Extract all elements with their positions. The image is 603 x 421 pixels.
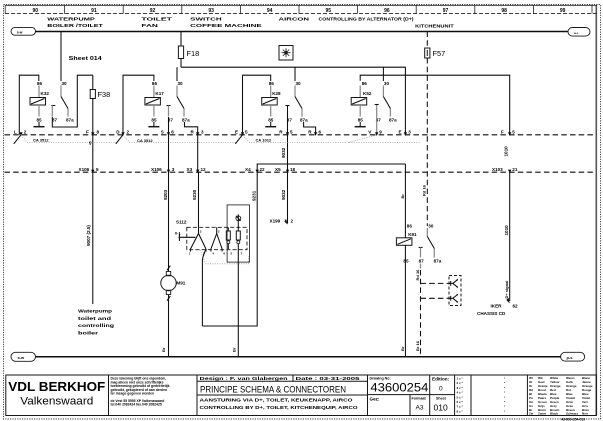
svg-text:Drawing No:: Drawing No: (370, 377, 391, 381)
svg-text:92: 92 (150, 8, 156, 14)
svg-text:controlling: controlling (78, 323, 114, 328)
svg-text:KITCHENUNIT: KITCHENUNIT (415, 23, 454, 28)
wire 1010 D+ signal to chassis (509, 172, 511, 301)
svg-text:0: 0 (439, 386, 443, 393)
svg-text:85: 85 (151, 117, 157, 122)
svg-text:s-w: s-w (17, 31, 23, 35)
svg-text:85: 85 (268, 117, 274, 122)
svg-text:A3: A3 (416, 405, 424, 412)
svg-text:Schwarz: Schwarz (566, 412, 579, 416)
svg-text:toilet and: toilet and (78, 316, 111, 321)
ground bus bottom (36, 356, 561, 358)
wire coil riser D-2 to K17 pin86 (123, 75, 154, 135)
svg-text:85: 85 (37, 117, 43, 122)
svg-text:9203: 9203 (163, 189, 168, 200)
svg-text:22: 22 (260, 167, 266, 172)
svg-text:94: 94 (267, 8, 273, 14)
wire V-9 exit to housing (348, 135, 377, 143)
svg-text:Br: Br (232, 347, 237, 352)
relay K32 coil (30, 81, 49, 122)
svg-text:3 c *: 3 c * (457, 386, 464, 390)
svg-text:Sheet 014: Sheet 014 (69, 56, 102, 62)
svg-text:a-s: a-s (574, 31, 579, 35)
housing dotted outline (21, 135, 420, 143)
svg-text:s-w: s-w (18, 355, 26, 360)
ground K28 (265, 122, 276, 127)
dotted switch underside (200, 250, 249, 264)
svg-text:BOILER /TOILET: BOILER /TOILET (47, 23, 103, 28)
svg-text:9032: 9032 (281, 147, 286, 158)
svg-text:AIRCON: AIRCON (279, 17, 311, 22)
line B pin labels (79, 167, 518, 172)
svg-text:6 c *: 6 c * (457, 400, 464, 404)
svg-text:CONTROLLING BY D+, TOILET, KIT: CONTROLLING BY D+, TOILET, KITCHENEQUIP,… (200, 405, 359, 410)
svg-text:Valkenswaard: Valkenswaard (20, 396, 93, 408)
svg-text:5: 5 (245, 130, 248, 135)
svg-text:p-s: p-s (567, 355, 574, 360)
svg-text:F18: F18 (187, 49, 200, 58)
svg-text:Br 16: Br 16 (415, 340, 420, 351)
svg-text:K28: K28 (272, 91, 281, 96)
svg-text:87a: 87a (434, 258, 442, 263)
svg-text:Design : F. van Glabergen: Design : F. van Glabergen (200, 376, 288, 381)
node s-w supply reference left oval (11, 27, 36, 35)
svg-text:87a: 87a (66, 117, 74, 122)
svg-text:E: E (235, 130, 238, 135)
relay K91 contact (419, 224, 442, 264)
svg-text:93: 93 (208, 8, 214, 14)
svg-text:D+ signal: D+ signal (504, 281, 509, 299)
svg-text:COFFEE MACHINE: COFFEE MACHINE (190, 23, 262, 28)
svg-text:1010: 1010 (504, 146, 509, 157)
svg-text:CA 3512: CA 3512 (137, 138, 153, 143)
svg-text:6: 6 (319, 130, 322, 135)
relay K32 contact (51, 81, 74, 122)
svg-text:010: 010 (434, 403, 448, 413)
svg-text:CONTROLLING BY ALTERNATOR (D+): CONTROLLING BY ALTERNATOR (D+) (319, 17, 415, 22)
relay K28 contact (286, 81, 309, 122)
svg-text:95: 95 (326, 8, 332, 14)
wire X106-3 down to motor (168, 172, 170, 271)
svg-text:CHASSIS CD: CHASSIS CD (477, 311, 506, 316)
svg-text:1010: 1010 (504, 225, 509, 236)
wire K17 87 down to S-6 (168, 117, 170, 135)
svg-text:FAN: FAN (141, 23, 159, 28)
svg-text:30: 30 (384, 81, 390, 86)
svg-text:Date : 03-31-2005: Date : 03-31-2005 (296, 376, 361, 381)
switch S112 (175, 220, 247, 250)
svg-text:Sheet: Sheet (436, 397, 447, 401)
svg-text:Noir: Noir (582, 412, 589, 416)
svg-text:4 c *: 4 c * (457, 391, 464, 395)
svg-text:CA 1012: CA 1012 (256, 137, 272, 142)
line A pin arrows (19, 132, 511, 136)
svg-text:2: 2 (127, 130, 130, 135)
wire K91 87 output (420, 264, 422, 269)
svg-text:87: 87 (52, 117, 58, 122)
wire K28 87 down through R-5 X5-18 to X199 (287, 106, 289, 224)
svg-text:boiler: boiler (78, 331, 98, 336)
svg-text:5: 5 (512, 130, 515, 135)
lamp L1 (226, 227, 230, 249)
switch S112 contact 2 (211, 227, 222, 251)
svg-text:Waterpump: Waterpump (78, 309, 112, 314)
svg-text:86: 86 (407, 224, 413, 229)
relay K28 coil (262, 81, 281, 122)
svg-text:3: 3 (172, 167, 175, 172)
svg-text:9007 (2.5): 9007 (2.5) (86, 225, 91, 246)
ground K52 (355, 122, 366, 127)
svg-text:M91: M91 (176, 280, 185, 285)
line B pin arrows (91, 170, 511, 174)
wire F57 dashed down to K91 pin30 (426, 58, 428, 226)
svg-text:86: 86 (37, 81, 43, 86)
svg-text:Edition:: Edition: (432, 376, 450, 381)
wire dashed to chassis connector (421, 270, 450, 357)
svg-text:L: L (14, 130, 17, 135)
svg-text:AANSTURING VIA D+, TOILET, KEU: AANSTURING VIA D+, TOILET, KEUKENAPP, AI… (200, 398, 354, 403)
svg-text:Rd 16: Rd 16 (415, 269, 420, 281)
relay K17 coil (145, 81, 164, 122)
wire motor to ground bus (168, 295, 170, 357)
svg-text:91: 91 (91, 8, 97, 14)
svg-text:Black: Black (550, 412, 558, 416)
fuse F38 (90, 75, 110, 99)
switch S112 pin numbers (189, 230, 243, 256)
svg-text:5: 5 (290, 130, 293, 135)
svg-text:F57: F57 (433, 49, 446, 58)
text waterpump note (78, 309, 114, 336)
svg-text:1 c *: 1 c * (457, 377, 464, 381)
svg-text:2: 2 (24, 130, 27, 135)
svg-text:IKER: IKER (491, 304, 503, 309)
lamp L2 with phi terminal (236, 214, 241, 243)
wire K32 87 to F38 loop (52, 75, 93, 127)
relay K52 contact (375, 81, 397, 122)
wire R-3 to X3-12 segment (197, 135, 199, 172)
svg-text:30: 30 (428, 224, 434, 229)
svg-text:X103: X103 (492, 167, 503, 172)
wire exit slashes at line A (14, 135, 243, 144)
svg-text:87a: 87a (300, 117, 308, 122)
svg-text:X3: X3 (187, 167, 193, 172)
svg-text:97: 97 (443, 8, 449, 14)
svg-text:K52: K52 (363, 91, 372, 96)
svg-text:86: 86 (269, 81, 275, 86)
svg-text:ter inzage gegeven worden: ter inzage gegeven worden (111, 392, 155, 396)
wire X4-22 feed to K91 top link (257, 164, 405, 172)
svg-text:SWITCH: SWITCH (190, 17, 223, 22)
wire K17 87a to R-3 (185, 122, 198, 135)
svg-text:3: 3 (408, 130, 411, 135)
svg-text:Rd 16: Rd 16 (422, 184, 427, 196)
svg-text:Formaat: Formaat (412, 397, 427, 401)
wire drop line1 to K28 pin30 (294, 67, 296, 81)
svg-text:K32: K32 (41, 91, 50, 96)
wire drop line1 to K52 pin30 (382, 67, 384, 81)
node a-s reference right oval (568, 28, 590, 37)
svg-text:Zw: Zw (529, 412, 534, 416)
logo VDL BERKHOF (8, 379, 105, 408)
svg-text:9231: 9231 (252, 190, 257, 201)
svg-text:7 c *: 7 c * (457, 405, 464, 409)
svg-text:X106: X106 (151, 167, 162, 172)
svg-text:30: 30 (178, 81, 184, 86)
svg-text:Br: Br (400, 346, 405, 351)
svg-text:87a: 87a (389, 117, 397, 122)
svg-text:Br: Br (400, 194, 405, 199)
svg-text:TOILET: TOILET (141, 17, 172, 22)
svg-text:85: 85 (358, 117, 364, 122)
svg-text:Br: Br (161, 347, 166, 352)
svg-text:98: 98 (501, 8, 507, 14)
title block frame (6, 375, 597, 416)
svg-text:F38: F38 (98, 90, 111, 99)
wire S112 output U loop (202, 172, 257, 326)
svg-text:K91: K91 (408, 232, 417, 237)
function header labels (47, 17, 454, 29)
svg-text:30: 30 (62, 81, 68, 86)
svg-text:12: 12 (201, 167, 207, 172)
svg-text:96: 96 (384, 8, 390, 14)
svg-text:43600254: 43600254 (370, 383, 429, 395)
wire +supply bus (36, 31, 569, 33)
svg-text:PRINCIPE SCHEMA & CONNECTOREN: PRINCIPE SCHEMA & CONNECTOREN (200, 384, 346, 394)
svg-text:9230: 9230 (192, 189, 197, 200)
svg-text:CA 3512: CA 3512 (33, 137, 49, 142)
wire coil riser E-5 to K28 pin86 (243, 75, 271, 135)
svg-text:45: 45 (89, 141, 93, 145)
ruler column ticks 90-99 (65, 5, 592, 13)
svg-text:21: 21 (512, 167, 518, 172)
wire K28 87a to R-6 (304, 122, 316, 135)
svg-text:9032: 9032 (281, 189, 286, 200)
connector line B dashed (5, 171, 597, 173)
svg-text:0-1: 0-1 (175, 231, 182, 236)
ground K17 (148, 122, 159, 127)
aircon snowflake icon (279, 46, 293, 61)
svg-text:S112: S112 (176, 220, 187, 225)
svg-text:30: 30 (296, 81, 302, 86)
wire line2 K52 pin86 to D+ feed (360, 75, 510, 135)
svg-text:Zwart: Zwart (538, 412, 546, 416)
svg-text:87a: 87a (182, 117, 190, 122)
svg-text:K17: K17 (155, 91, 164, 96)
svg-text:8 c *: 8 c * (457, 409, 464, 413)
svg-text:VDL BERKHOF: VDL BERKHOF (8, 379, 105, 394)
svg-text:86: 86 (362, 81, 368, 86)
relay K52 coil (351, 81, 372, 122)
svg-text:87: 87 (419, 258, 425, 263)
svg-text:5: 5 (96, 167, 99, 172)
node p-s bottom right oval (561, 352, 585, 361)
lamp housing box (227, 205, 249, 262)
revision rows (457, 377, 507, 414)
fuse F57 (425, 32, 446, 59)
svg-text:X106: X106 (79, 167, 90, 172)
wire line1 from F18 feeding relay contacts (181, 67, 405, 135)
connector chassis box (449, 276, 461, 306)
svg-text:43-600-254-010: 43-600-254-010 (561, 417, 585, 421)
svg-text:3: 3 (201, 130, 204, 135)
wire bus drop to K32 pin30 (60, 32, 62, 82)
connector line A dashed (5, 134, 597, 136)
relay K17 contact (167, 81, 191, 122)
svg-text:X4: X4 (245, 167, 251, 172)
line A pin labels (14, 130, 515, 135)
svg-text:S: S (161, 130, 164, 135)
svg-text:X5: X5 (275, 167, 281, 172)
colour legend table (529, 376, 593, 416)
svg-text:62: 62 (513, 304, 519, 309)
svg-text:X199: X199 (270, 219, 281, 224)
connector housing labels (33, 137, 272, 143)
wire K91 feed vertical (404, 164, 406, 238)
svg-text:2: 2 (291, 219, 294, 224)
svg-text:Gez:: Gez: (370, 397, 380, 402)
svg-text:85: 85 (403, 258, 409, 263)
svg-text:5 c *: 5 c * (457, 395, 464, 399)
svg-text:90: 90 (33, 8, 39, 14)
node IKER 62 chassis reference (477, 298, 518, 316)
ground K32 (34, 122, 45, 127)
svg-text:8: 8 (97, 130, 100, 135)
svg-text:6: 6 (171, 130, 174, 135)
svg-text:2 c *: 2 c * (457, 381, 464, 385)
svg-text:tel.040 2082424 fax.040 208242: tel.040 2082424 fax.040 2082425 (111, 403, 162, 407)
connector X199 stub (270, 219, 294, 225)
svg-text:F: F (86, 130, 89, 135)
disclaimer text (111, 377, 170, 407)
wire K52 87 down to V-9 (376, 105, 378, 135)
ruler column numbers (33, 8, 566, 14)
wire coil riser L-2 to K32 pin86 (19, 75, 39, 135)
wire F38 down through F-8 X106-5 to waterpump (92, 99, 94, 305)
fuse F18 (178, 32, 199, 68)
svg-text:F: F (501, 130, 504, 135)
relay K91 coil (396, 224, 417, 264)
wire K91 85 to ground bus (404, 245, 406, 356)
motor M91 (161, 266, 186, 301)
wire drop line1 to K17 pin30 (176, 67, 178, 81)
svg-text:99: 99 (560, 8, 566, 14)
svg-text:86: 86 (152, 81, 158, 86)
svg-text:18: 18 (290, 167, 296, 172)
wire S-6 to X106-3 segment (168, 135, 170, 172)
wire lamp L2 to ground bus (237, 244, 239, 357)
svg-text:WATERPUMP: WATERPUMP (47, 17, 95, 22)
switch S112 contact 1 (191, 172, 207, 251)
svg-text:E: E (399, 130, 402, 135)
node s-w bottom left oval (11, 352, 36, 361)
svg-text:9: 9 (379, 130, 382, 135)
